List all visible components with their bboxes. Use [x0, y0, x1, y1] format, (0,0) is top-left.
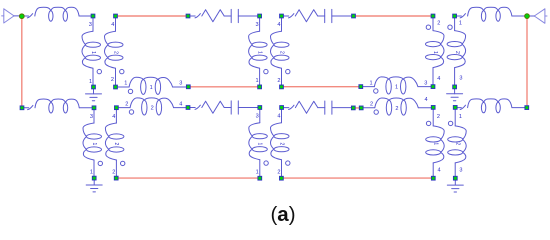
node N32 [258, 176, 262, 180]
svg-text:2: 2 [112, 169, 115, 175]
wire W4 top rail b [356, 15, 431, 17]
node N13 [186, 85, 190, 89]
svg-text:1: 1 [370, 80, 373, 86]
svg-text:3: 3 [459, 76, 462, 82]
node N27 [431, 106, 435, 110]
polarity dot T3 winding 2 [448, 25, 452, 29]
node N25 [351, 106, 355, 110]
node N20 [92, 106, 96, 110]
port P1 [2, 9, 19, 23]
svg-text:2: 2 [278, 51, 284, 54]
node N1 port 1 [19, 14, 24, 19]
transformer T1 winding 2 [105, 18, 125, 85]
polarity dot T4 winding 2 [121, 161, 125, 165]
transformer T8 winding 2 [364, 97, 431, 115]
svg-text:2: 2 [112, 51, 118, 54]
svg-text:4: 4 [112, 114, 115, 120]
svg-text:1: 1 [256, 51, 262, 54]
transformer T7 winding 2 [119, 98, 186, 115]
polarity dot T4 winding 1 [98, 161, 102, 165]
transformer T2 winding 1 [249, 18, 268, 84]
transformer T4 winding 2 [105, 110, 125, 176]
wire W5 mid rail a [190, 86, 257, 88]
svg-text:4: 4 [111, 22, 114, 28]
svg-text:1: 1 [90, 51, 96, 54]
svg-text:1: 1 [432, 142, 438, 145]
svg-text:3: 3 [255, 22, 258, 28]
transformer T2 winding 2 [271, 18, 290, 84]
node N12 [114, 85, 118, 89]
node N11 [92, 85, 96, 89]
svg-text:3: 3 [459, 167, 462, 173]
node N4 [114, 14, 118, 18]
svg-text:4: 4 [277, 22, 280, 28]
transformer T3 winding 2 [447, 18, 466, 85]
node N29 [525, 106, 529, 110]
node N10 [453, 14, 457, 18]
node N2 port 2 [525, 14, 530, 19]
resistor R2 [284, 10, 325, 22]
wire W8 bottom rail a [119, 177, 258, 179]
polarity dot T5 winding 1 [264, 161, 268, 165]
svg-text:1: 1 [256, 170, 259, 176]
polarity dot T8 winding 2 [374, 110, 378, 114]
node N22 [186, 106, 190, 110]
node N7 [280, 14, 284, 18]
node N23 [258, 106, 262, 110]
node N33 [280, 176, 284, 180]
svg-text:1: 1 [459, 21, 462, 27]
capacitor C1 [231, 9, 257, 22]
ground GND3 [86, 180, 102, 192]
transformer T4 winding 1 [83, 110, 103, 176]
inductor L1 [24, 7, 90, 21]
node N14 [258, 85, 262, 89]
wire W7 mid stub [356, 107, 359, 109]
svg-text:3: 3 [256, 114, 259, 120]
node N15 [280, 85, 284, 89]
transformer T5 winding 1 [249, 110, 268, 176]
svg-text:4: 4 [277, 114, 280, 120]
node N24 [280, 106, 284, 110]
wire W9 bottom rail b [284, 177, 431, 179]
node N30 [92, 176, 96, 180]
resistor R4 [284, 101, 325, 113]
transformer T5 winding 2 [271, 110, 290, 176]
ground GND1 [86, 89, 102, 101]
polarity dot T2 winding 2 [286, 69, 290, 73]
svg-text:2: 2 [125, 101, 128, 107]
node N18 [453, 85, 457, 89]
svg-text:2: 2 [454, 142, 460, 145]
transformer T7 winding 1 [118, 77, 186, 94]
resistor R1 [190, 10, 231, 22]
node N35 [453, 176, 457, 180]
wire W6 mid rail b [284, 86, 359, 88]
svg-text:1: 1 [90, 169, 93, 175]
transformer T3 winding 1 [426, 18, 445, 84]
svg-text:1: 1 [255, 78, 258, 84]
svg-text:2: 2 [370, 101, 373, 107]
svg-text:1: 1 [432, 51, 438, 54]
node N34 [431, 176, 435, 180]
capacitor C3 [231, 101, 257, 114]
node N6 [258, 14, 262, 18]
svg-text:1: 1 [257, 142, 263, 145]
capacitor C4 [325, 101, 351, 114]
node N19 [20, 106, 24, 110]
svg-text:3: 3 [424, 80, 427, 86]
svg-text:2: 2 [437, 114, 440, 120]
inductor L3 [24, 99, 91, 113]
svg-text:2: 2 [277, 78, 280, 84]
port P2 [530, 9, 547, 23]
wire W2 port2 down [526, 19, 528, 105]
node N31 [114, 176, 118, 180]
node N28 [453, 106, 457, 110]
svg-text:1: 1 [91, 143, 97, 146]
svg-text:3: 3 [179, 81, 182, 87]
polarity dot T2 winding 1 [264, 69, 268, 73]
polarity dot T1 winding 2 [120, 69, 124, 73]
node N3 [91, 14, 95, 18]
svg-text:2: 2 [437, 21, 440, 27]
polarity dot T7 winding 2 [129, 110, 133, 114]
svg-text:1: 1 [150, 85, 153, 91]
inductor L4 [457, 99, 524, 113]
svg-text:2: 2 [277, 170, 280, 176]
ground GND4 [447, 180, 463, 192]
svg-text:3: 3 [89, 22, 92, 28]
svg-text:2: 2 [113, 143, 119, 146]
polarity dot T1 winding 1 [97, 69, 101, 73]
wire W1 port1 down [21, 19, 23, 105]
polarity dot T6 winding 2 [448, 121, 452, 125]
node N5 [186, 14, 190, 18]
svg-text:2: 2 [278, 142, 284, 145]
svg-text:4: 4 [179, 101, 182, 107]
transformer T6 winding 1 [426, 110, 445, 176]
transformer T8 winding 1 [363, 77, 430, 94]
polarity dot T5 winding 2 [286, 161, 290, 165]
svg-text:2: 2 [454, 51, 460, 54]
ground GND2 [447, 89, 463, 101]
svg-text:4: 4 [437, 167, 440, 173]
polarity dot T6 winding 1 [426, 121, 430, 125]
svg-text:2: 2 [395, 106, 398, 112]
svg-text:2: 2 [111, 77, 114, 83]
resistor R3 [190, 101, 231, 113]
wire W3 top rail a [118, 15, 186, 17]
svg-text:4: 4 [424, 97, 427, 103]
svg-text:(a): (a) [270, 203, 295, 226]
svg-text:1: 1 [124, 81, 127, 87]
svg-text:1: 1 [395, 85, 398, 91]
capacitor C2 [325, 9, 351, 22]
node N17 [431, 85, 435, 89]
node N26 [359, 106, 363, 110]
polarity dot T7 winding 1 [128, 89, 132, 93]
node N21 [115, 106, 119, 110]
transformer T1 winding 1 [82, 18, 102, 85]
svg-text:3: 3 [90, 114, 93, 120]
svg-text:2: 2 [151, 106, 154, 112]
node N9 [431, 14, 435, 18]
transformer T6 winding 2 [448, 110, 467, 176]
polarity dot T8 winding 1 [374, 89, 378, 93]
node N8 [352, 14, 356, 18]
svg-text:1: 1 [89, 79, 92, 85]
svg-text:1: 1 [459, 114, 462, 120]
node N16 [359, 85, 363, 89]
svg-text:4: 4 [437, 76, 440, 82]
inductor L2 [457, 7, 525, 21]
polarity dot T3 winding 1 [426, 25, 430, 29]
